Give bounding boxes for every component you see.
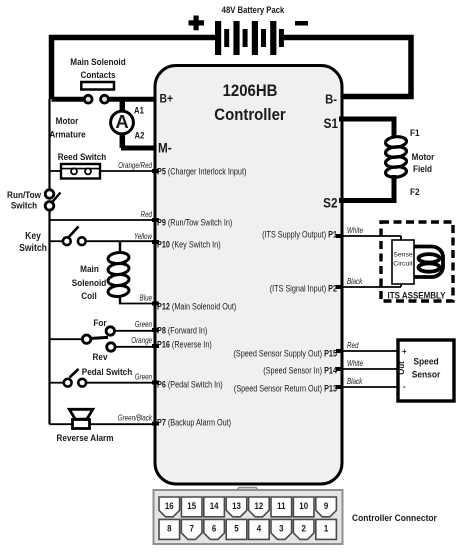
battery BT1 48V Battery Pack: [189, 6, 309, 55]
svg-text:Run/Tow: Run/Tow: [7, 190, 41, 201]
svg-text:Reed Switch: Reed Switch: [58, 152, 107, 163]
wire P13 to sensor (Black): [343, 377, 398, 387]
pin P7: [157, 417, 231, 428]
svg-text:B-: B-: [325, 92, 337, 107]
wire For to P8: [116, 330, 157, 332]
connector pin 15: [181, 497, 202, 517]
svg-text:A1: A1: [134, 106, 144, 116]
svg-text:Reverse Alarm: Reverse Alarm: [57, 433, 114, 444]
svg-text:3: 3: [279, 523, 284, 534]
svg-text:Circuit: Circuit: [393, 261, 413, 268]
svg-text:Blue: Blue: [140, 294, 152, 303]
left bus wire: [48, 99, 50, 190]
pin P8: [157, 325, 208, 336]
svg-text:Black: Black: [347, 377, 363, 386]
main solenoid coil L1: [72, 242, 130, 304]
svg-text:P8 (Forward In): P8 (Forward In): [157, 325, 208, 336]
svg-text:P7 (Backup Alarm Out): P7 (Backup Alarm Out): [157, 417, 231, 428]
pin P16: [157, 339, 212, 350]
svg-text:P5 (Charger Interlock Input): P5 (Charger Interlock Input): [157, 166, 247, 177]
wire P2 to sense circuit (Black): [343, 277, 401, 287]
wire armature to M- (thick): [121, 146, 156, 151]
ITS assembly dashed box: [381, 222, 453, 301]
svg-text:Armature: Armature: [49, 129, 85, 140]
controller connector J1: [154, 488, 438, 545]
sense circuit U2: [392, 240, 414, 284]
wire alarm to P7: [90, 423, 157, 425]
wire pedal to P6: [86, 382, 156, 384]
connector pin 6: [204, 519, 225, 539]
connector pin 4: [249, 519, 270, 539]
svg-text:Out: Out: [397, 361, 406, 375]
svg-text:-: -: [403, 382, 406, 391]
svg-text:6: 6: [212, 523, 217, 534]
svg-text:Main: Main: [80, 264, 99, 275]
svg-text:10: 10: [299, 501, 308, 512]
connector pin 3: [271, 519, 292, 539]
wire P15 to sensor (Red): [343, 341, 398, 351]
svg-text:Red: Red: [141, 210, 153, 219]
svg-text:Field: Field: [413, 164, 432, 175]
svg-text:Orange/Red: Orange/Red: [118, 161, 153, 170]
wire S1 to motor field (thick): [339, 119, 394, 137]
svg-text:Main Solenoid: Main Solenoid: [70, 57, 125, 68]
pin stubs at controller edge: [152, 169, 343, 426]
svg-text:Sensor: Sensor: [412, 369, 441, 380]
pedal switch S5: [50, 367, 133, 387]
connector pin 14: [204, 497, 225, 517]
svg-text:Green/Black: Green/Black: [118, 414, 153, 423]
pin P2: [270, 283, 338, 294]
svg-text:P16 (Reverse In): P16 (Reverse In): [157, 339, 212, 350]
wire bus to P9: [50, 219, 157, 221]
wire contact left to battery wire (thick): [52, 97, 85, 102]
pin P9: [157, 217, 232, 228]
svg-text:Green: Green: [135, 320, 152, 329]
forward/reverse switch S4: [50, 318, 116, 363]
svg-text:9: 9: [324, 501, 329, 512]
svg-text:A2: A2: [135, 131, 145, 141]
svg-text:Motor: Motor: [56, 116, 79, 127]
wire P1 to sense circuit (White): [343, 226, 401, 241]
svg-text:48V Battery Pack: 48V Battery Pack: [222, 6, 285, 16]
connector pin 1: [316, 519, 337, 539]
wire reed to P5: [100, 170, 156, 172]
svg-text:Controller Connector: Controller Connector: [352, 513, 437, 524]
wire coil to P12: [119, 303, 156, 305]
motor armature M1: [49, 99, 144, 148]
connector pin 7: [181, 519, 202, 539]
svg-text:4: 4: [257, 523, 262, 534]
svg-text:M-: M-: [158, 141, 172, 156]
wire contact right to B+ (thick): [108, 97, 156, 102]
svg-text:(Speed Sensor Return Out) P13: (Speed Sensor Return Out) P13: [234, 383, 337, 394]
svg-text:P9 (Run/Tow Switch In): P9 (Run/Tow Switch In): [157, 217, 232, 228]
wire Rev to P16: [116, 346, 156, 348]
svg-text:Rev: Rev: [92, 352, 107, 363]
key switch S3: [19, 227, 86, 254]
connector pin 12: [249, 497, 270, 517]
pin P6: [157, 379, 223, 390]
run/tow switch S2r: [7, 190, 60, 211]
wire P14 to sensor (White): [343, 359, 398, 369]
svg-text:Yellow: Yellow: [134, 232, 153, 241]
pin P14: [263, 365, 337, 376]
controller U1 body: [155, 66, 342, 485]
svg-text:Speed: Speed: [413, 356, 438, 367]
svg-text:12: 12: [254, 501, 263, 512]
svg-text:2: 2: [301, 523, 306, 534]
pin P10: [157, 239, 221, 250]
pin P13: [234, 383, 337, 394]
svg-text:16: 16: [165, 501, 174, 512]
svg-text:+: +: [402, 347, 407, 356]
svg-text:S2: S2: [323, 196, 337, 211]
pin P15: [233, 348, 337, 359]
reverse alarm LS1: [50, 409, 114, 443]
pin P12: [157, 301, 237, 312]
svg-text:Switch: Switch: [19, 243, 47, 254]
svg-text:(Speed Sensor Supply Out) P15: (Speed Sensor Supply Out) P15: [233, 348, 337, 359]
svg-text:S1: S1: [324, 116, 338, 131]
wire key switch to P10: [86, 240, 156, 242]
main solenoid contacts K1: [70, 57, 125, 104]
svg-text:F2: F2: [410, 187, 420, 198]
pin P1: [262, 229, 337, 240]
svg-text:White: White: [347, 359, 363, 368]
svg-text:F1: F1: [410, 128, 420, 139]
svg-text:1: 1: [324, 523, 329, 534]
motor field coil L2: [385, 136, 407, 179]
svg-text:For: For: [93, 318, 107, 329]
wire battery+ to main solenoid contact (thick): [52, 38, 216, 100]
svg-text:7: 7: [189, 523, 194, 534]
wire S2 to motor field (thick): [339, 175, 394, 201]
svg-text:Coil: Coil: [81, 291, 96, 302]
svg-text:(ITS Supply Output) P1: (ITS Supply Output) P1: [262, 229, 337, 240]
ITS coil L3: [414, 247, 443, 278]
svg-text:(Speed Sensor In) P14: (Speed Sensor In) P14: [263, 365, 337, 376]
connector pin 9: [316, 497, 337, 517]
pin P5: [157, 166, 247, 177]
svg-text:White: White: [347, 226, 363, 235]
reed switch S1r: [50, 152, 107, 179]
connector pin 16: [159, 497, 180, 517]
svg-text:ITS ASSEMBLY: ITS ASSEMBLY: [388, 291, 447, 301]
svg-text:5: 5: [234, 523, 239, 534]
svg-text:8: 8: [167, 523, 172, 534]
connector pin 11: [271, 497, 292, 517]
svg-text:P10 (Key Switch In): P10 (Key Switch In): [157, 239, 221, 250]
svg-text:13: 13: [232, 501, 241, 512]
connector pin 13: [226, 497, 247, 517]
svg-text:11: 11: [277, 501, 286, 512]
svg-text:Solenoid: Solenoid: [72, 278, 107, 289]
svg-text:Switch: Switch: [11, 200, 37, 211]
connector pin 2: [293, 519, 314, 539]
connector pin 10: [293, 497, 314, 517]
label Motor Field: [412, 152, 435, 175]
svg-text:A: A: [115, 111, 128, 132]
svg-text:Pedal Switch: Pedal Switch: [82, 367, 132, 378]
svg-text:Red: Red: [347, 341, 359, 350]
svg-text:Orange: Orange: [131, 336, 152, 345]
connector pin 8: [159, 519, 180, 539]
svg-text:Black: Black: [347, 277, 363, 286]
svg-text:(ITS Signal Input) P2: (ITS Signal Input) P2: [270, 283, 338, 294]
svg-text:Motor: Motor: [412, 152, 435, 163]
svg-text:Sense: Sense: [393, 252, 412, 259]
svg-text:Green: Green: [135, 373, 152, 382]
svg-text:B+: B+: [160, 93, 174, 106]
svg-text:Key: Key: [25, 231, 42, 242]
svg-text:15: 15: [187, 501, 196, 512]
svg-text:1206HB: 1206HB: [223, 82, 278, 100]
speed sensor U3: [397, 340, 454, 401]
connector pin 5: [226, 519, 247, 539]
svg-text:14: 14: [210, 501, 219, 512]
svg-text:Controller: Controller: [214, 106, 285, 124]
svg-text:Contacts: Contacts: [81, 70, 116, 81]
wire battery- down to B- (thick): [284, 38, 411, 97]
svg-text:P6 (Pedal Switch In): P6 (Pedal Switch In): [157, 379, 223, 390]
svg-text:P12 (Main Solenoid Out): P12 (Main Solenoid Out): [157, 301, 237, 312]
